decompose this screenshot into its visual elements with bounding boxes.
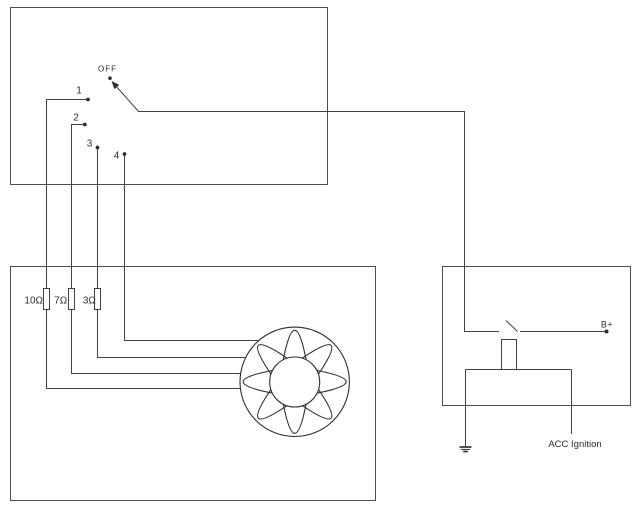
- svg-text:B+: B+: [601, 320, 613, 330]
- svg-text:3: 3: [87, 138, 93, 149]
- svg-text:1: 1: [76, 86, 82, 97]
- svg-text:ACC Ignition: ACC Ignition: [548, 439, 601, 450]
- svg-text:4: 4: [114, 150, 120, 161]
- svg-text:3Ω: 3Ω: [83, 296, 97, 307]
- svg-text:7Ω: 7Ω: [54, 296, 68, 307]
- svg-text:OFF: OFF: [98, 64, 117, 73]
- svg-text:2: 2: [73, 113, 79, 124]
- svg-text:10Ω: 10Ω: [24, 296, 43, 307]
